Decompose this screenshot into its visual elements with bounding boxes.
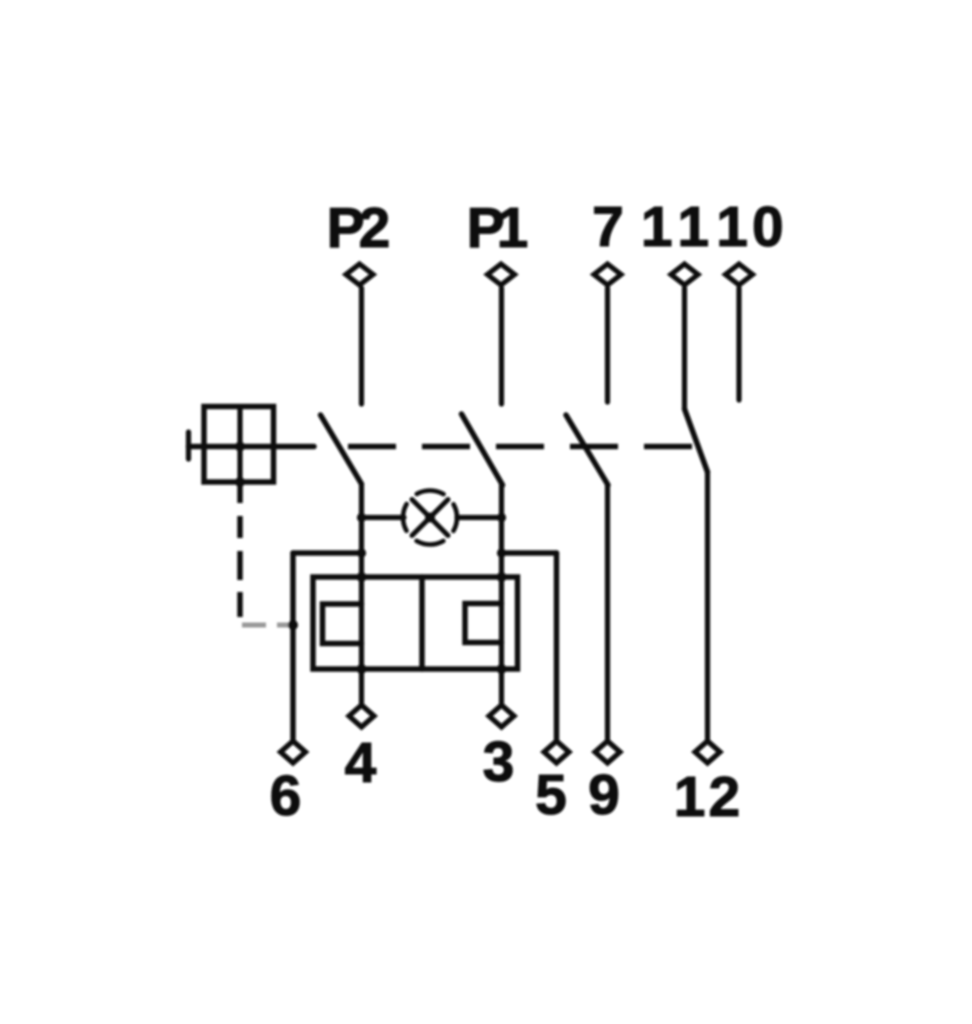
svg-text:P1: P1 bbox=[467, 196, 528, 260]
svg-text:12: 12 bbox=[674, 765, 743, 829]
svg-text:3: 3 bbox=[483, 730, 515, 794]
svg-text:5: 5 bbox=[535, 763, 567, 827]
svg-text:7: 7 bbox=[592, 195, 624, 259]
svg-text:10: 10 bbox=[716, 195, 787, 259]
svg-text:4: 4 bbox=[345, 731, 377, 795]
svg-text:11: 11 bbox=[641, 195, 717, 259]
svg-text:6: 6 bbox=[270, 764, 302, 828]
svg-text:P2: P2 bbox=[327, 196, 389, 260]
svg-text:9: 9 bbox=[588, 763, 620, 827]
